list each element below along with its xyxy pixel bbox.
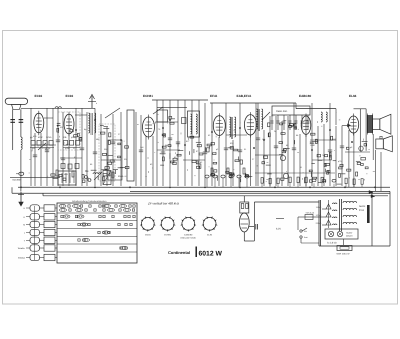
svg-text:Continental: Continental — [168, 250, 190, 255]
svg-text:Aus: Aus — [304, 236, 307, 239]
svg-text:EABC80: EABC80 — [299, 94, 311, 98]
svg-text:ZF verläuft bei 468 kHz: ZF verläuft bei 468 kHz — [147, 202, 179, 206]
svg-text:127V~: 127V~ — [316, 214, 323, 217]
svg-text:Ratio-Det.: Ratio-Det. — [276, 110, 288, 113]
svg-text:lampen: lampen — [346, 235, 353, 238]
svg-text:kF5F: kF5F — [38, 136, 44, 139]
svg-text:Gedruckte Schalt.: Gedruckte Schalt. — [180, 237, 196, 240]
svg-text:2VV5: 2VV5 — [46, 136, 52, 139]
svg-text:Ein/aus: Ein/aus — [18, 257, 25, 260]
svg-text:Bandfilter: Bandfilter — [13, 179, 22, 182]
svg-text:M: M — [23, 224, 25, 227]
svg-text:16k: 16k — [262, 138, 265, 141]
svg-text:EC92: EC92 — [35, 94, 43, 98]
svg-text:EC92: EC92 — [66, 94, 74, 98]
svg-text:F114: F114 — [359, 209, 365, 212]
svg-text:Schalterstellung Tastenkombina: Schalterstellung Tastenkombination — [72, 200, 107, 203]
svg-text:MM: MM — [96, 138, 100, 141]
svg-text:EM34: EM34 — [145, 234, 151, 237]
svg-text:Ein: Ein — [304, 230, 307, 233]
svg-text:ECH81: ECH81 — [143, 94, 153, 98]
svg-text:EL84: EL84 — [207, 234, 213, 237]
svg-text:Netztr.: Netztr. — [359, 205, 366, 208]
svg-text:60mA: 60mA — [118, 175, 124, 178]
svg-text:6,3V: 6,3V — [276, 228, 281, 231]
svg-text:EL84: EL84 — [349, 94, 357, 98]
svg-text:pVM: pVM — [71, 136, 76, 139]
svg-text:Skalen-: Skalen- — [346, 232, 353, 235]
svg-text:220V~: 220V~ — [316, 222, 323, 225]
svg-text:EABC80: EABC80 — [184, 234, 193, 237]
svg-text:EAB,EF41: EAB,EF41 — [237, 94, 252, 98]
svg-text:110V~: 110V~ — [316, 206, 323, 209]
svg-text:GER 2061 W: GER 2061 W — [337, 253, 351, 256]
svg-text:Tonabn.: Tonabn. — [18, 247, 26, 250]
svg-text:ECH81: ECH81 — [164, 234, 172, 237]
svg-text:6012 W: 6012 W — [199, 251, 223, 258]
svg-text:EF41: EF41 — [210, 94, 218, 98]
svg-text:S=1,8 kΩ: S=1,8 kΩ — [327, 242, 337, 245]
svg-text:Sich.0,2A: Sich.0,2A — [306, 212, 315, 215]
